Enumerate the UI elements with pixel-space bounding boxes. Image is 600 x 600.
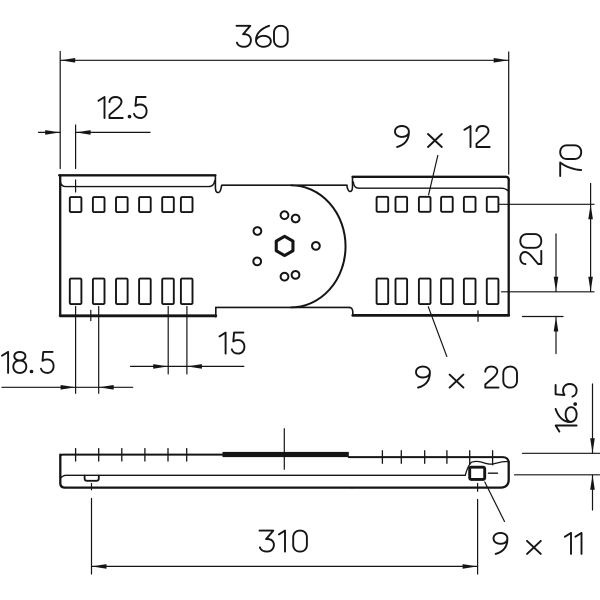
arrow 18.5 right (pointing left) [99, 385, 114, 390]
arrow 70 top [588, 204, 593, 219]
bottom step right [349, 307, 353, 315]
slots 9x12 top-right row [377, 197, 499, 212]
dim line [590, 184, 592, 292]
top flange bottom line [61, 181, 215, 187]
dim line upper [592, 384, 594, 453]
label 9 x 20 with leader [428, 307, 447, 357]
bottom step left [215, 307, 217, 317]
index hole bottom-right [292, 271, 300, 279]
side view: left half profile [60, 455, 465, 488]
ext line fold line [515, 474, 600, 476]
arrow 15 left (pointing right) [153, 364, 168, 369]
top notch right [347, 177, 353, 192]
bottom edge right thick [353, 314, 509, 317]
arrow 12.5 right (outside, pointing left) [76, 130, 91, 135]
arrow 360 right [494, 58, 509, 63]
dimension 70 [500, 184, 595, 292]
slots 9x20 bottom-right row [377, 279, 499, 305]
ext line bottom slot row [502, 291, 595, 293]
ext line top slot row [500, 203, 595, 205]
arrow 70 bottom [588, 277, 593, 292]
label 70 (rotated) [560, 145, 581, 176]
dimension 12.5 [39, 125, 151, 192]
arrow 310 right [463, 564, 478, 569]
side view centerline [283, 429, 285, 470]
index hole lower-left [253, 258, 261, 266]
dim line [92, 565, 478, 567]
ext line plate bottom [523, 316, 564, 318]
label 9 x 11 with leader [485, 482, 505, 522]
arrow 20 bottom (pointing up) [554, 317, 559, 332]
label 20 (rotated) [520, 234, 541, 264]
dim line [60, 59, 509, 61]
dimension 360 [60, 52, 509, 175]
side view slot ticks left [76, 449, 187, 461]
label 16.5 (rotated) [556, 384, 577, 432]
dimension 18.5 [2, 307, 133, 394]
index hole right [312, 242, 320, 250]
dimension 20 [523, 234, 564, 354]
dimension 310 [92, 484, 478, 575]
label 360 [237, 26, 288, 47]
slots 9x12 top-left row [70, 197, 193, 212]
arc of underlying half [291, 185, 346, 307]
arrow 16.5 bottom (pointing up) [590, 475, 595, 490]
dimension 16.5 [515, 384, 600, 510]
label 310 [260, 531, 307, 552]
dimension 15 [131, 307, 244, 374]
ext line right [508, 52, 510, 174]
right edge [508, 179, 510, 315]
ext line at first slot center [75, 125, 77, 192]
slots 9x20 bottom-left row [70, 279, 193, 305]
top view: middle overlap edges [216, 177, 353, 315]
mid top edge [222, 184, 347, 186]
index hole top [281, 211, 289, 219]
arrow 310 left [92, 564, 107, 569]
index hole bottom [281, 273, 289, 281]
arrow 16.5 top (pointing down) [590, 438, 595, 453]
ext line left hole [91, 484, 93, 575]
label 15 [220, 333, 245, 354]
wavy break line [465, 461, 508, 475]
right 9x11 hole [470, 467, 485, 479]
dim line tails [39, 131, 61, 133]
bottom edge left thick [60, 314, 216, 317]
hole position tick right on bottom edge [477, 311, 479, 322]
mid bottom edge [216, 306, 350, 308]
label 12.5 [98, 97, 146, 118]
label 18.5 [2, 352, 54, 373]
arrow 360 left [60, 58, 75, 63]
top flange bottom line [353, 182, 508, 191]
index hole upper-left [254, 227, 262, 235]
index hole top-right [292, 215, 300, 223]
dim line lower [592, 475, 594, 510]
arrow 20 top (pointing down) [554, 277, 559, 292]
ext line left [59, 52, 61, 169]
dim line lower [555, 317, 557, 354]
ext line right hole [477, 484, 479, 575]
stub of fold line right of hole [489, 472, 498, 474]
label 9 x 12 with leader [429, 156, 438, 195]
arrow 18.5 left (pointing right) [61, 385, 76, 390]
fold line [61, 475, 465, 478]
side view slot ticks right [382, 451, 492, 465]
arrow 12.5 left (outside, pointing right) [45, 130, 60, 135]
arrow 15 right (pointing left) [187, 364, 202, 369]
top view: left half plate outline [59, 175, 222, 317]
side view: overlap thick bar [223, 452, 349, 457]
ext line side view top [523, 452, 600, 454]
top view: right half plate outline [353, 177, 509, 316]
hole position tick left on bottom edge [90, 310, 92, 320]
top flange top line [59, 174, 215, 176]
top flange top line [353, 177, 509, 180]
dim line upper [555, 234, 557, 292]
side view: right half profile [349, 457, 509, 488]
hex nut center [276, 236, 293, 255]
left edge [59, 175, 61, 314]
top notch left [215, 175, 221, 192]
left 9x11 hole [85, 475, 99, 480]
